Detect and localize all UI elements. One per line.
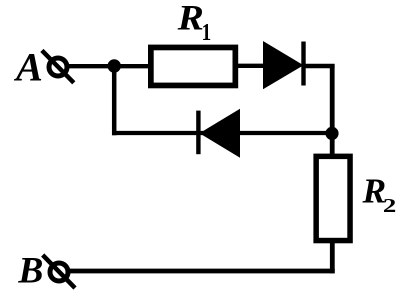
- terminal B: [50, 263, 68, 281]
- wire R1 to diode D1: [236, 64, 270, 68]
- wire D1 to right rail: [303, 64, 335, 68]
- svg-text:A: A: [13, 45, 43, 90]
- svg-text:R: R: [177, 0, 204, 38]
- wire R2 bottom down: [330, 241, 335, 273]
- svg-text:1: 1: [201, 19, 211, 45]
- resistor R2: [316, 156, 350, 240]
- node right junction: [325, 127, 338, 140]
- svg-text:2: 2: [383, 195, 396, 217]
- wire lower branch horizontal: [112, 131, 334, 135]
- wire bottom B rail: [70, 269, 335, 274]
- diode D2: [200, 109, 241, 158]
- wire left junction down: [112, 64, 117, 135]
- diode D1: [263, 41, 304, 89]
- resistor R1: [151, 47, 236, 85]
- svg-text:B: B: [17, 251, 43, 292]
- wire A terminal to left junction: [66, 64, 117, 68]
- terminal A: [49, 58, 67, 76]
- wire left junction to R1: [112, 64, 152, 68]
- node left junction: [108, 59, 121, 72]
- wire right rail vertical: [330, 64, 335, 156]
- svg-text:R: R: [361, 172, 386, 210]
